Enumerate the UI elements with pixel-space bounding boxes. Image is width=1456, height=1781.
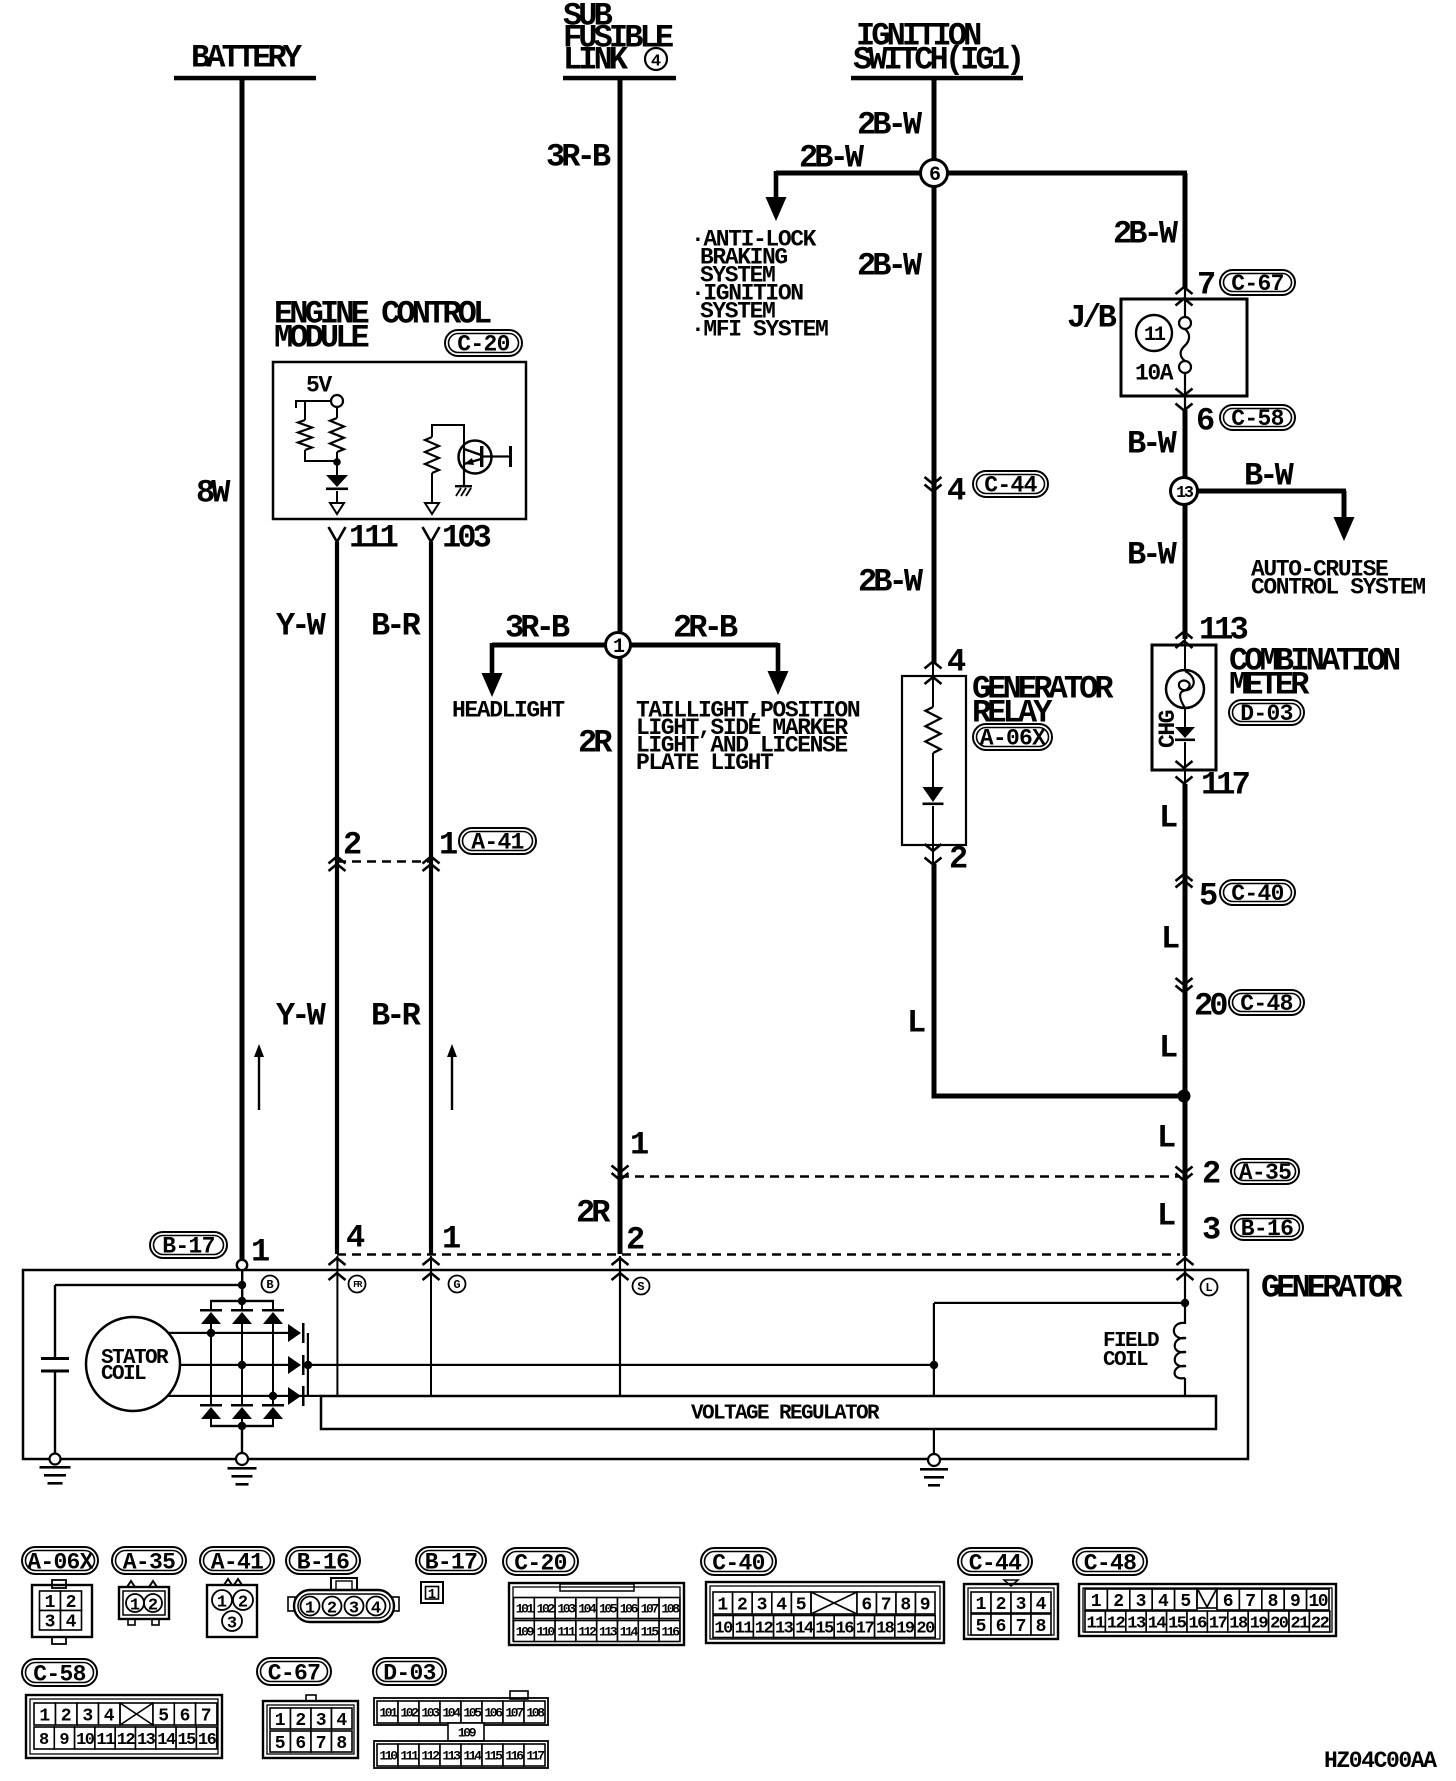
rectifier diode D7 (right row1) xyxy=(288,1324,301,1342)
dashed connector line B-16 xyxy=(337,1253,1180,1256)
svg-text:14: 14 xyxy=(795,1620,814,1639)
generator entry chevrons G xyxy=(423,1258,440,1265)
svg-text:5: 5 xyxy=(796,1596,807,1616)
svg-text:C-44: C-44 xyxy=(984,473,1037,499)
svg-text:1: 1 xyxy=(251,1234,269,1271)
arrow to headlight xyxy=(490,643,495,679)
svg-text:4: 4 xyxy=(1036,1595,1047,1615)
svg-text:114: 114 xyxy=(620,1625,639,1640)
svg-text:110: 110 xyxy=(379,1749,398,1764)
svg-text:C-40: C-40 xyxy=(1231,881,1283,907)
svg-text:17: 17 xyxy=(1209,1615,1228,1634)
connector C-44 label xyxy=(958,1548,1032,1575)
wire: battery feed 8W, x=242 xyxy=(240,78,245,1261)
output triangle pin 111 xyxy=(330,503,344,514)
svg-text:112: 112 xyxy=(578,1625,597,1640)
svg-text:5: 5 xyxy=(1180,1592,1191,1612)
svg-text:105: 105 xyxy=(463,1706,482,1721)
svg-text:113: 113 xyxy=(442,1749,461,1764)
svg-text:L: L xyxy=(1159,1030,1177,1067)
svg-text:104: 104 xyxy=(578,1602,597,1617)
svg-text:5: 5 xyxy=(158,1707,169,1727)
svg-text:14: 14 xyxy=(1148,1615,1167,1634)
svg-text:4: 4 xyxy=(336,1711,347,1731)
connector A-06X label xyxy=(22,1547,98,1574)
node 6 horizontal 2B-W bus xyxy=(776,171,1187,176)
wire: G inside generator xyxy=(430,1256,432,1396)
svg-text:A-35: A-35 xyxy=(1239,1160,1291,1186)
svg-text:114: 114 xyxy=(463,1749,482,1764)
svg-text:1: 1 xyxy=(442,1221,460,1258)
svg-text:11: 11 xyxy=(1086,1615,1105,1634)
rectifier diode D6 (bottom) xyxy=(262,1404,284,1407)
rectifier top bus xyxy=(241,1286,243,1301)
svg-text:1: 1 xyxy=(39,1707,50,1727)
svg-text:B-W: B-W xyxy=(1127,426,1178,463)
svg-text:1: 1 xyxy=(439,827,457,864)
svg-text:110: 110 xyxy=(537,1625,556,1640)
relay coil resistor xyxy=(932,664,934,707)
svg-text:8W: 8W xyxy=(196,475,231,512)
svg-text:2B-W: 2B-W xyxy=(858,564,924,601)
fuse 10A xyxy=(1184,289,1186,317)
rectifier diode D8 (right row2) xyxy=(288,1356,301,1374)
svg-text:12: 12 xyxy=(117,1731,136,1750)
connector B-16 label xyxy=(286,1547,360,1574)
svg-text:106: 106 xyxy=(620,1602,639,1617)
wire: L from meter, x=1185 xyxy=(1183,784,1188,1256)
resistor (base drive) xyxy=(432,425,464,446)
svg-text:13: 13 xyxy=(775,1620,794,1639)
svg-text:9: 9 xyxy=(920,1596,931,1616)
meter diode xyxy=(1184,708,1186,727)
svg-text:MODULE: MODULE xyxy=(274,320,369,357)
generator terminal FR xyxy=(349,1276,366,1293)
transistor Q1 xyxy=(459,441,492,474)
svg-text:2R: 2R xyxy=(578,725,613,762)
svg-text:18: 18 xyxy=(876,1620,895,1639)
svg-text:S: S xyxy=(637,1280,644,1294)
svg-text:15: 15 xyxy=(1168,1615,1187,1634)
svg-text:115: 115 xyxy=(484,1749,503,1764)
connector A-35 pinout xyxy=(127,1581,157,1587)
connector C-20 label xyxy=(503,1548,578,1575)
generator relay pin 4 crossing C-44 xyxy=(925,477,942,484)
current direction arrow xyxy=(254,1044,264,1057)
svg-text:3: 3 xyxy=(349,1600,359,1619)
field coil xyxy=(1184,1303,1186,1324)
connector D-03 pinout xyxy=(510,1691,528,1699)
stator phase line 1 xyxy=(168,1332,288,1334)
svg-text:3: 3 xyxy=(757,1596,768,1616)
svg-text:11: 11 xyxy=(1144,324,1166,347)
connector C-20 pinout xyxy=(509,1583,684,1645)
svg-text:2B-W: 2B-W xyxy=(857,107,923,144)
rectifier diode D2 xyxy=(241,1301,243,1310)
svg-text:111: 111 xyxy=(557,1625,576,1640)
svg-text:10: 10 xyxy=(76,1731,95,1750)
svg-text:3: 3 xyxy=(1202,1212,1220,1249)
relay branch horizontal xyxy=(932,1094,1185,1099)
svg-text:L: L xyxy=(1205,1281,1212,1295)
svg-text:117: 117 xyxy=(1201,767,1250,804)
svg-text:21: 21 xyxy=(1290,1615,1309,1634)
transistor emitter ground xyxy=(463,467,465,486)
svg-text:PLATE LIGHT: PLATE LIGHT xyxy=(636,750,774,776)
svg-text:A-35: A-35 xyxy=(123,1549,175,1575)
svg-text:B-W: B-W xyxy=(1127,537,1178,574)
voltage regulator box xyxy=(321,1396,1216,1429)
svg-text:J/B: J/B xyxy=(1067,300,1117,337)
wire across to regulator xyxy=(934,1302,1185,1304)
svg-text:L: L xyxy=(1157,1198,1175,1235)
svg-text:L: L xyxy=(1157,1120,1175,1157)
svg-text:3: 3 xyxy=(1136,1592,1147,1612)
connector C-40 pin 5 crossing xyxy=(1176,874,1193,881)
svg-text:2: 2 xyxy=(626,1222,644,1259)
capacitor C1 xyxy=(41,1357,69,1360)
connector A-35 pin 1 crossing on 2R wire xyxy=(612,1166,629,1173)
svg-text:COIL: COIL xyxy=(101,1363,146,1386)
svg-text:3: 3 xyxy=(316,1711,327,1731)
svg-text:1: 1 xyxy=(717,1596,728,1616)
svg-text:16: 16 xyxy=(1188,1615,1207,1634)
svg-text:13: 13 xyxy=(137,1731,156,1750)
svg-text:HEADLIGHT: HEADLIGHT xyxy=(452,697,565,723)
svg-text:6: 6 xyxy=(295,1734,306,1754)
stator coil xyxy=(86,1317,180,1411)
svg-text:2B-W: 2B-W xyxy=(857,248,923,285)
node 13 branch to auto-cruise xyxy=(1197,489,1346,494)
svg-text:A-06X: A-06X xyxy=(980,726,1046,752)
rectifier bottom bus xyxy=(210,1425,274,1427)
svg-text:Y-W: Y-W xyxy=(276,998,327,1035)
svg-text:6: 6 xyxy=(996,1617,1007,1637)
svg-text:7: 7 xyxy=(316,1734,327,1754)
input triangle pin 103 xyxy=(425,503,439,514)
svg-text:B-17: B-17 xyxy=(162,1234,214,1260)
wire: B-W J/B to node 13, x=1185 xyxy=(1183,410,1188,639)
svg-text:2: 2 xyxy=(343,827,361,864)
svg-text:2R: 2R xyxy=(576,1195,611,1232)
svg-text:2: 2 xyxy=(737,1596,748,1616)
svg-text:3R-B: 3R-B xyxy=(546,139,611,176)
svg-text:2: 2 xyxy=(61,1707,72,1727)
connector C-40 label xyxy=(701,1548,776,1575)
svg-text:117: 117 xyxy=(526,1749,544,1764)
svg-text:B-W: B-W xyxy=(1244,458,1295,495)
rectifier columns xyxy=(210,1324,212,1405)
svg-text:20: 20 xyxy=(1270,1615,1289,1634)
connector C-40 pinout xyxy=(706,1582,944,1643)
svg-text:C-20: C-20 xyxy=(514,1550,566,1576)
svg-text:B-16: B-16 xyxy=(1241,1216,1293,1242)
svg-text:L: L xyxy=(1161,921,1179,958)
svg-text:B-R: B-R xyxy=(371,998,422,1035)
svg-text:18: 18 xyxy=(1229,1615,1248,1634)
svg-text:16: 16 xyxy=(836,1620,855,1639)
generator L entry chevrons xyxy=(1177,1258,1194,1265)
combination meter pin 117 xyxy=(1176,761,1193,768)
connector C-58 pin 6 crossing xyxy=(1176,389,1193,396)
svg-text:C-40: C-40 xyxy=(712,1550,764,1576)
svg-text:4: 4 xyxy=(1158,1592,1169,1612)
svg-text:7: 7 xyxy=(1245,1592,1256,1612)
ECM pin 103 xyxy=(423,527,440,542)
connector B-17 label xyxy=(416,1547,486,1574)
svg-text:A-06X: A-06X xyxy=(27,1549,93,1575)
svg-text:2: 2 xyxy=(238,1594,248,1613)
svg-text:2R-B: 2R-B xyxy=(673,610,738,647)
svg-text:4: 4 xyxy=(651,53,661,72)
svg-text:5: 5 xyxy=(275,1734,286,1754)
connector B-16 pinout xyxy=(331,1578,357,1591)
svg-text:B-17: B-17 xyxy=(425,1549,477,1575)
svg-text:C-44: C-44 xyxy=(969,1550,1022,1576)
svg-text:1: 1 xyxy=(275,1711,286,1731)
svg-text:C-58: C-58 xyxy=(1231,406,1283,432)
svg-text:C-48: C-48 xyxy=(1240,991,1292,1017)
svg-text:17: 17 xyxy=(856,1620,875,1639)
svg-text:4: 4 xyxy=(371,1600,381,1619)
node 1 xyxy=(606,633,631,658)
wire: Y-W from ECM 111, x=337 xyxy=(335,542,339,1254)
svg-text:3: 3 xyxy=(227,1615,237,1634)
fuse number 11 circle xyxy=(1136,315,1172,351)
svg-text:2: 2 xyxy=(295,1711,306,1731)
connector A-35 pin 2 crossing xyxy=(1176,1167,1193,1174)
svg-text:102: 102 xyxy=(537,1602,556,1617)
svg-text:13: 13 xyxy=(1176,483,1194,502)
svg-text:METER: METER xyxy=(1229,667,1310,704)
svg-text:109: 109 xyxy=(458,1726,477,1741)
svg-text:2B-W: 2B-W xyxy=(1113,216,1179,253)
ECM pin 111 xyxy=(329,527,346,542)
svg-text:1: 1 xyxy=(217,1594,227,1613)
rectifier right bus xyxy=(307,1333,309,1396)
rectifier diode D9 (right row3) xyxy=(288,1387,301,1405)
svg-text:3: 3 xyxy=(45,1613,56,1633)
svg-text:SWITCH(IG1): SWITCH(IG1) xyxy=(853,42,1021,79)
connector C-67 pin 7 crossing xyxy=(1176,287,1193,294)
arrow to anti-lock braking system xyxy=(774,171,779,203)
wire: B-R from ECM 103, x=431 xyxy=(429,542,433,1254)
wire: S inside generator xyxy=(619,1256,621,1396)
generator terminal L xyxy=(1201,1279,1218,1296)
svg-text:4: 4 xyxy=(776,1596,787,1616)
svg-text:LINK: LINK xyxy=(563,42,629,79)
dashed connector line A-41 xyxy=(337,860,431,863)
svg-text:6: 6 xyxy=(1223,1592,1234,1612)
junction block J/B xyxy=(1121,299,1247,396)
svg-text:101: 101 xyxy=(379,1706,398,1721)
generator entry chevrons FR xyxy=(329,1258,346,1265)
dashed connector line A-35 xyxy=(620,1175,1180,1178)
svg-text:6: 6 xyxy=(929,164,940,187)
svg-text:103: 103 xyxy=(442,520,491,557)
svg-text:11: 11 xyxy=(96,1731,115,1750)
svg-text:111: 111 xyxy=(349,520,398,557)
svg-text:116: 116 xyxy=(505,1749,524,1764)
svg-text:HZ04C00AA: HZ04C00AA xyxy=(1324,1748,1437,1774)
connector C-58 label xyxy=(22,1659,97,1686)
svg-text:3R-B: 3R-B xyxy=(505,610,570,647)
combination meter box xyxy=(1152,645,1216,770)
svg-text:22: 22 xyxy=(1311,1615,1330,1634)
connector B-17 terminal xyxy=(150,1232,227,1258)
svg-text:112: 112 xyxy=(421,1749,440,1764)
engine control module box xyxy=(273,362,526,519)
svg-text:113: 113 xyxy=(599,1625,618,1640)
svg-text:5: 5 xyxy=(1199,878,1217,915)
svg-text:1: 1 xyxy=(1091,1592,1102,1612)
wire: L inside generator xyxy=(1184,1256,1186,1304)
wire: ignition 2B-W feed, x=934 xyxy=(932,78,937,664)
junction xyxy=(333,458,341,466)
svg-text:103: 103 xyxy=(421,1706,440,1721)
svg-text:104: 104 xyxy=(442,1706,461,1721)
connector C-67 pinout xyxy=(306,1695,316,1701)
svg-text:7: 7 xyxy=(1016,1617,1027,1637)
connector A-06X pinout xyxy=(52,1580,66,1588)
wire: relay output L, x=934 xyxy=(932,864,937,1096)
svg-text:1: 1 xyxy=(305,1600,315,1619)
svg-text:B-R: B-R xyxy=(371,608,422,645)
svg-text:L: L xyxy=(1159,800,1177,837)
svg-text:19: 19 xyxy=(1250,1615,1269,1634)
svg-text:16: 16 xyxy=(198,1731,217,1750)
svg-text:B: B xyxy=(266,1278,273,1292)
svg-text:2: 2 xyxy=(1113,1592,1124,1612)
svg-text:C-48: C-48 xyxy=(1084,1550,1136,1576)
svg-text:111: 111 xyxy=(400,1749,419,1764)
connector A-35 label xyxy=(112,1547,186,1574)
svg-text:10: 10 xyxy=(1308,1592,1327,1612)
current direction arrow xyxy=(447,1044,457,1057)
svg-text:6: 6 xyxy=(180,1707,191,1727)
svg-text:CONTROL SYSTEM: CONTROL SYSTEM xyxy=(1251,574,1425,600)
svg-text:BATTERY: BATTERY xyxy=(191,40,303,77)
connector C-48 pinout xyxy=(1079,1584,1336,1636)
svg-text:8: 8 xyxy=(1036,1617,1047,1637)
svg-text:107: 107 xyxy=(505,1706,523,1721)
generator terminal B xyxy=(262,1276,279,1293)
wire: 2B-W to J/B, x=1185 xyxy=(1183,173,1188,289)
svg-text:109: 109 xyxy=(516,1625,535,1640)
resistor (pull-up right) xyxy=(336,407,338,418)
svg-text:101: 101 xyxy=(516,1602,535,1617)
field feed wire to voltage regulator xyxy=(308,1364,934,1366)
svg-text:6: 6 xyxy=(1196,403,1214,440)
relay diode xyxy=(923,787,944,802)
svg-text:6: 6 xyxy=(861,1596,872,1616)
svg-text:14: 14 xyxy=(157,1731,176,1750)
node 1 bus 3R-B/2R-B xyxy=(492,643,778,648)
node 13 xyxy=(1171,478,1198,505)
svg-text:Y-W: Y-W xyxy=(276,608,327,645)
svg-text:1: 1 xyxy=(976,1595,987,1615)
svg-text:2: 2 xyxy=(949,841,967,878)
svg-text:13: 13 xyxy=(1127,1615,1146,1634)
rectifier diode D1 xyxy=(210,1301,212,1310)
svg-text:D-03: D-03 xyxy=(1240,701,1292,727)
zener diode to pin 111 xyxy=(336,462,338,475)
wire: sub fusible link 3R-B / 2R feed, x=620 xyxy=(618,78,623,1254)
svg-text:108: 108 xyxy=(661,1602,680,1617)
connector D-03 label xyxy=(373,1658,446,1685)
svg-text:2: 2 xyxy=(327,1600,337,1619)
rectifier ground xyxy=(236,1453,248,1465)
svg-text:9: 9 xyxy=(1290,1592,1301,1612)
generator relay box xyxy=(902,676,966,845)
svg-text:2: 2 xyxy=(1202,1156,1220,1193)
svg-text:GENERATOR: GENERATOR xyxy=(1261,1270,1403,1307)
svg-text:107: 107 xyxy=(641,1602,659,1617)
svg-text:COIL: COIL xyxy=(1103,1349,1148,1372)
svg-text:3: 3 xyxy=(82,1707,93,1727)
connector A-41 label xyxy=(200,1547,274,1574)
svg-text:C-20: C-20 xyxy=(457,332,509,358)
svg-text:L: L xyxy=(907,1005,925,1042)
resistor (pull-up left) xyxy=(304,401,306,420)
svg-text:1: 1 xyxy=(428,1587,436,1603)
svg-text:15: 15 xyxy=(815,1620,834,1639)
svg-text:2B-W: 2B-W xyxy=(799,140,865,177)
capacitor ground xyxy=(50,1454,61,1465)
node 6 xyxy=(921,160,948,187)
generator box xyxy=(23,1270,1248,1459)
svg-text:A-41: A-41 xyxy=(471,830,523,856)
svg-text:11: 11 xyxy=(735,1620,754,1639)
svg-text:3: 3 xyxy=(1016,1595,1027,1615)
svg-text:105: 105 xyxy=(599,1602,618,1617)
junction of relay branch and L wire xyxy=(1178,1090,1191,1103)
wire: FR inside generator xyxy=(336,1256,338,1396)
svg-text:4: 4 xyxy=(66,1613,77,1633)
svg-text:A-41: A-41 xyxy=(211,1549,263,1575)
wire to capacitor xyxy=(55,1284,242,1286)
svg-text:20: 20 xyxy=(916,1620,935,1639)
arrow to taillight xyxy=(776,643,781,677)
svg-text:15: 15 xyxy=(177,1731,196,1750)
svg-text:9: 9 xyxy=(59,1731,69,1750)
svg-text:10A: 10A xyxy=(1135,360,1174,386)
wire: B terminal into rectifier xyxy=(241,1270,243,1286)
connector A-41 pinout xyxy=(224,1579,242,1585)
svg-text:115: 115 xyxy=(641,1625,660,1640)
svg-text:C-58: C-58 xyxy=(33,1661,85,1687)
svg-text:1: 1 xyxy=(130,1597,140,1616)
connector C-67 label xyxy=(257,1658,331,1685)
svg-text:5V: 5V xyxy=(306,372,332,398)
svg-text:8: 8 xyxy=(900,1596,911,1616)
rectifier diode D3 xyxy=(272,1301,274,1310)
svg-text:7: 7 xyxy=(201,1707,212,1727)
svg-text:20: 20 xyxy=(1194,988,1227,1025)
rectifier diode D4 (bottom) xyxy=(200,1404,222,1407)
generator relay pin 2 xyxy=(925,844,942,851)
connector C-48 pin 20 crossing xyxy=(1176,978,1193,985)
svg-text:7: 7 xyxy=(881,1596,892,1616)
svg-text:8: 8 xyxy=(1268,1592,1279,1612)
connector C-58 pinout xyxy=(26,1695,222,1758)
svg-text:D-03: D-03 xyxy=(383,1660,435,1686)
svg-text:8: 8 xyxy=(39,1731,49,1750)
generator terminal G xyxy=(449,1276,466,1293)
svg-text:108: 108 xyxy=(526,1706,545,1721)
svg-text:8: 8 xyxy=(336,1734,347,1754)
svg-text:2: 2 xyxy=(996,1595,1007,1615)
